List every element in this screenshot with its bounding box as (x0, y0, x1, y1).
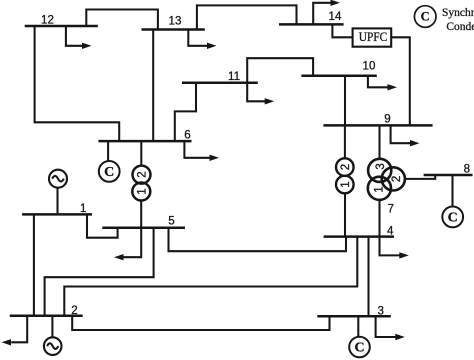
legend synchronous condenser symbol (414, 6, 436, 28)
load arrow bus 10 (368, 76, 397, 91)
generator G1 (49, 170, 67, 188)
svg-text:7: 7 (388, 203, 394, 216)
bus 14 bar (279, 23, 344, 26)
svg-text:C: C (448, 211, 458, 226)
three-winding transformer winding 3 (368, 159, 391, 182)
bus 4 bar (324, 235, 394, 238)
wire 3-4 (367, 237, 369, 317)
bus 1 bar (22, 213, 92, 216)
three-winding transformer winding 1 (368, 177, 391, 200)
load arrow bus 3 (376, 316, 405, 340)
load arrow bus 5 (114, 228, 141, 261)
svg-text:11: 11 (228, 70, 240, 83)
wire 2-4 (64, 237, 357, 316)
wire generator G1 to bus 1 (56, 188, 58, 215)
wire 13-6 (152, 30, 154, 142)
wire bus 6 to condenser (107, 141, 109, 161)
wire 4-5 (169, 228, 347, 252)
svg-text:2: 2 (71, 304, 77, 317)
wire 2-5 (45, 228, 154, 316)
svg-text:14: 14 (329, 10, 342, 23)
wire 10-11 (247, 58, 313, 82)
generator G2 (44, 316, 62, 355)
svg-text:3: 3 (375, 163, 387, 169)
bus 3 bar (317, 315, 391, 318)
wire 6-11 (175, 83, 196, 141)
svg-text:1: 1 (374, 186, 386, 192)
svg-text:12: 12 (41, 14, 54, 27)
wire bus 3 to condenser (357, 316, 359, 337)
wire bus 9 to transformer 4-9 (344, 125, 346, 158)
three-winding transformer winding 2 (382, 167, 405, 190)
svg-text:C: C (421, 10, 430, 24)
synchronous condenser C at bus 3 (349, 337, 370, 358)
bus 6 bar (98, 140, 191, 143)
wire 1-5 (87, 214, 118, 237)
synchronous condenser C at bus 8 (442, 207, 463, 228)
svg-text:3: 3 (378, 304, 384, 317)
svg-text:C: C (104, 165, 114, 180)
wire UPFC to bus 9 (391, 37, 410, 125)
load arrow bus 9 (391, 125, 420, 146)
wire bus 8 to condenser (451, 175, 453, 206)
transformer 5-6 winding 2 (133, 166, 151, 184)
svg-text:1: 1 (340, 181, 352, 187)
wire three-winding transformer to bus 4 (378, 200, 380, 237)
transformer 5-6 winding 1 (132, 183, 150, 201)
svg-text:1: 1 (80, 202, 86, 215)
wire transformer 5-6 to bus 5 (140, 200, 142, 227)
svg-text:5: 5 (168, 215, 174, 228)
svg-text:C: C (354, 341, 364, 356)
wire 14 to UPFC (332, 24, 352, 37)
bus 12 bar (25, 25, 98, 28)
wire 1-2 (33, 214, 35, 315)
load arrow bus 4 (380, 237, 409, 259)
load arrow bus 6 (184, 141, 219, 161)
legend text (442, 7, 474, 33)
load arrow bus 12 (66, 26, 92, 49)
transformer 4-9 winding 2 (336, 158, 354, 176)
bus 11 bar (182, 81, 258, 84)
svg-text:13: 13 (169, 15, 182, 28)
svg-text:Condenser: Condenser (446, 21, 474, 33)
wire transformer 4-9 to bus 4 (344, 193, 346, 236)
load arrow bus 13 (188, 30, 216, 50)
svg-text:UPFC: UPFC (359, 30, 388, 44)
transformer 4-9 winding 1 (336, 176, 354, 194)
svg-text:2: 2 (340, 164, 352, 170)
svg-text:1: 1 (136, 188, 148, 194)
bus 9 bar (323, 124, 432, 127)
bus 13 bar (142, 28, 205, 31)
wire 12-6 (35, 26, 120, 141)
wire 7-8 (405, 175, 435, 179)
svg-text:Synchronous: Synchronous (442, 7, 474, 19)
wire 9-10 (344, 76, 346, 126)
wire 2-3 (72, 316, 329, 330)
load arrow bus 14 (313, 0, 340, 24)
bus 5 bar (102, 226, 185, 229)
svg-text:10: 10 (363, 60, 376, 73)
load arrow bus 2 (2, 316, 28, 346)
wire 13-14 (197, 5, 297, 29)
bus 10 bar (301, 74, 376, 77)
svg-text:2: 2 (391, 176, 403, 182)
wire 12-13 (86, 10, 158, 30)
wire bus 9 to three-winding transformer (378, 125, 380, 158)
svg-text:9: 9 (384, 112, 390, 125)
svg-text:8: 8 (464, 162, 470, 175)
synchronous condenser C at bus 6 (99, 161, 120, 182)
svg-text:4: 4 (387, 224, 394, 237)
load arrow bus 11 (247, 83, 274, 105)
svg-text:6: 6 (184, 128, 190, 141)
bus 8 bar (424, 174, 473, 177)
bus 2 bar (10, 315, 83, 318)
wire bus 6 to transformer 5-6 (140, 141, 142, 166)
svg-text:2: 2 (137, 171, 149, 177)
UPFC box U1 (353, 28, 392, 46)
